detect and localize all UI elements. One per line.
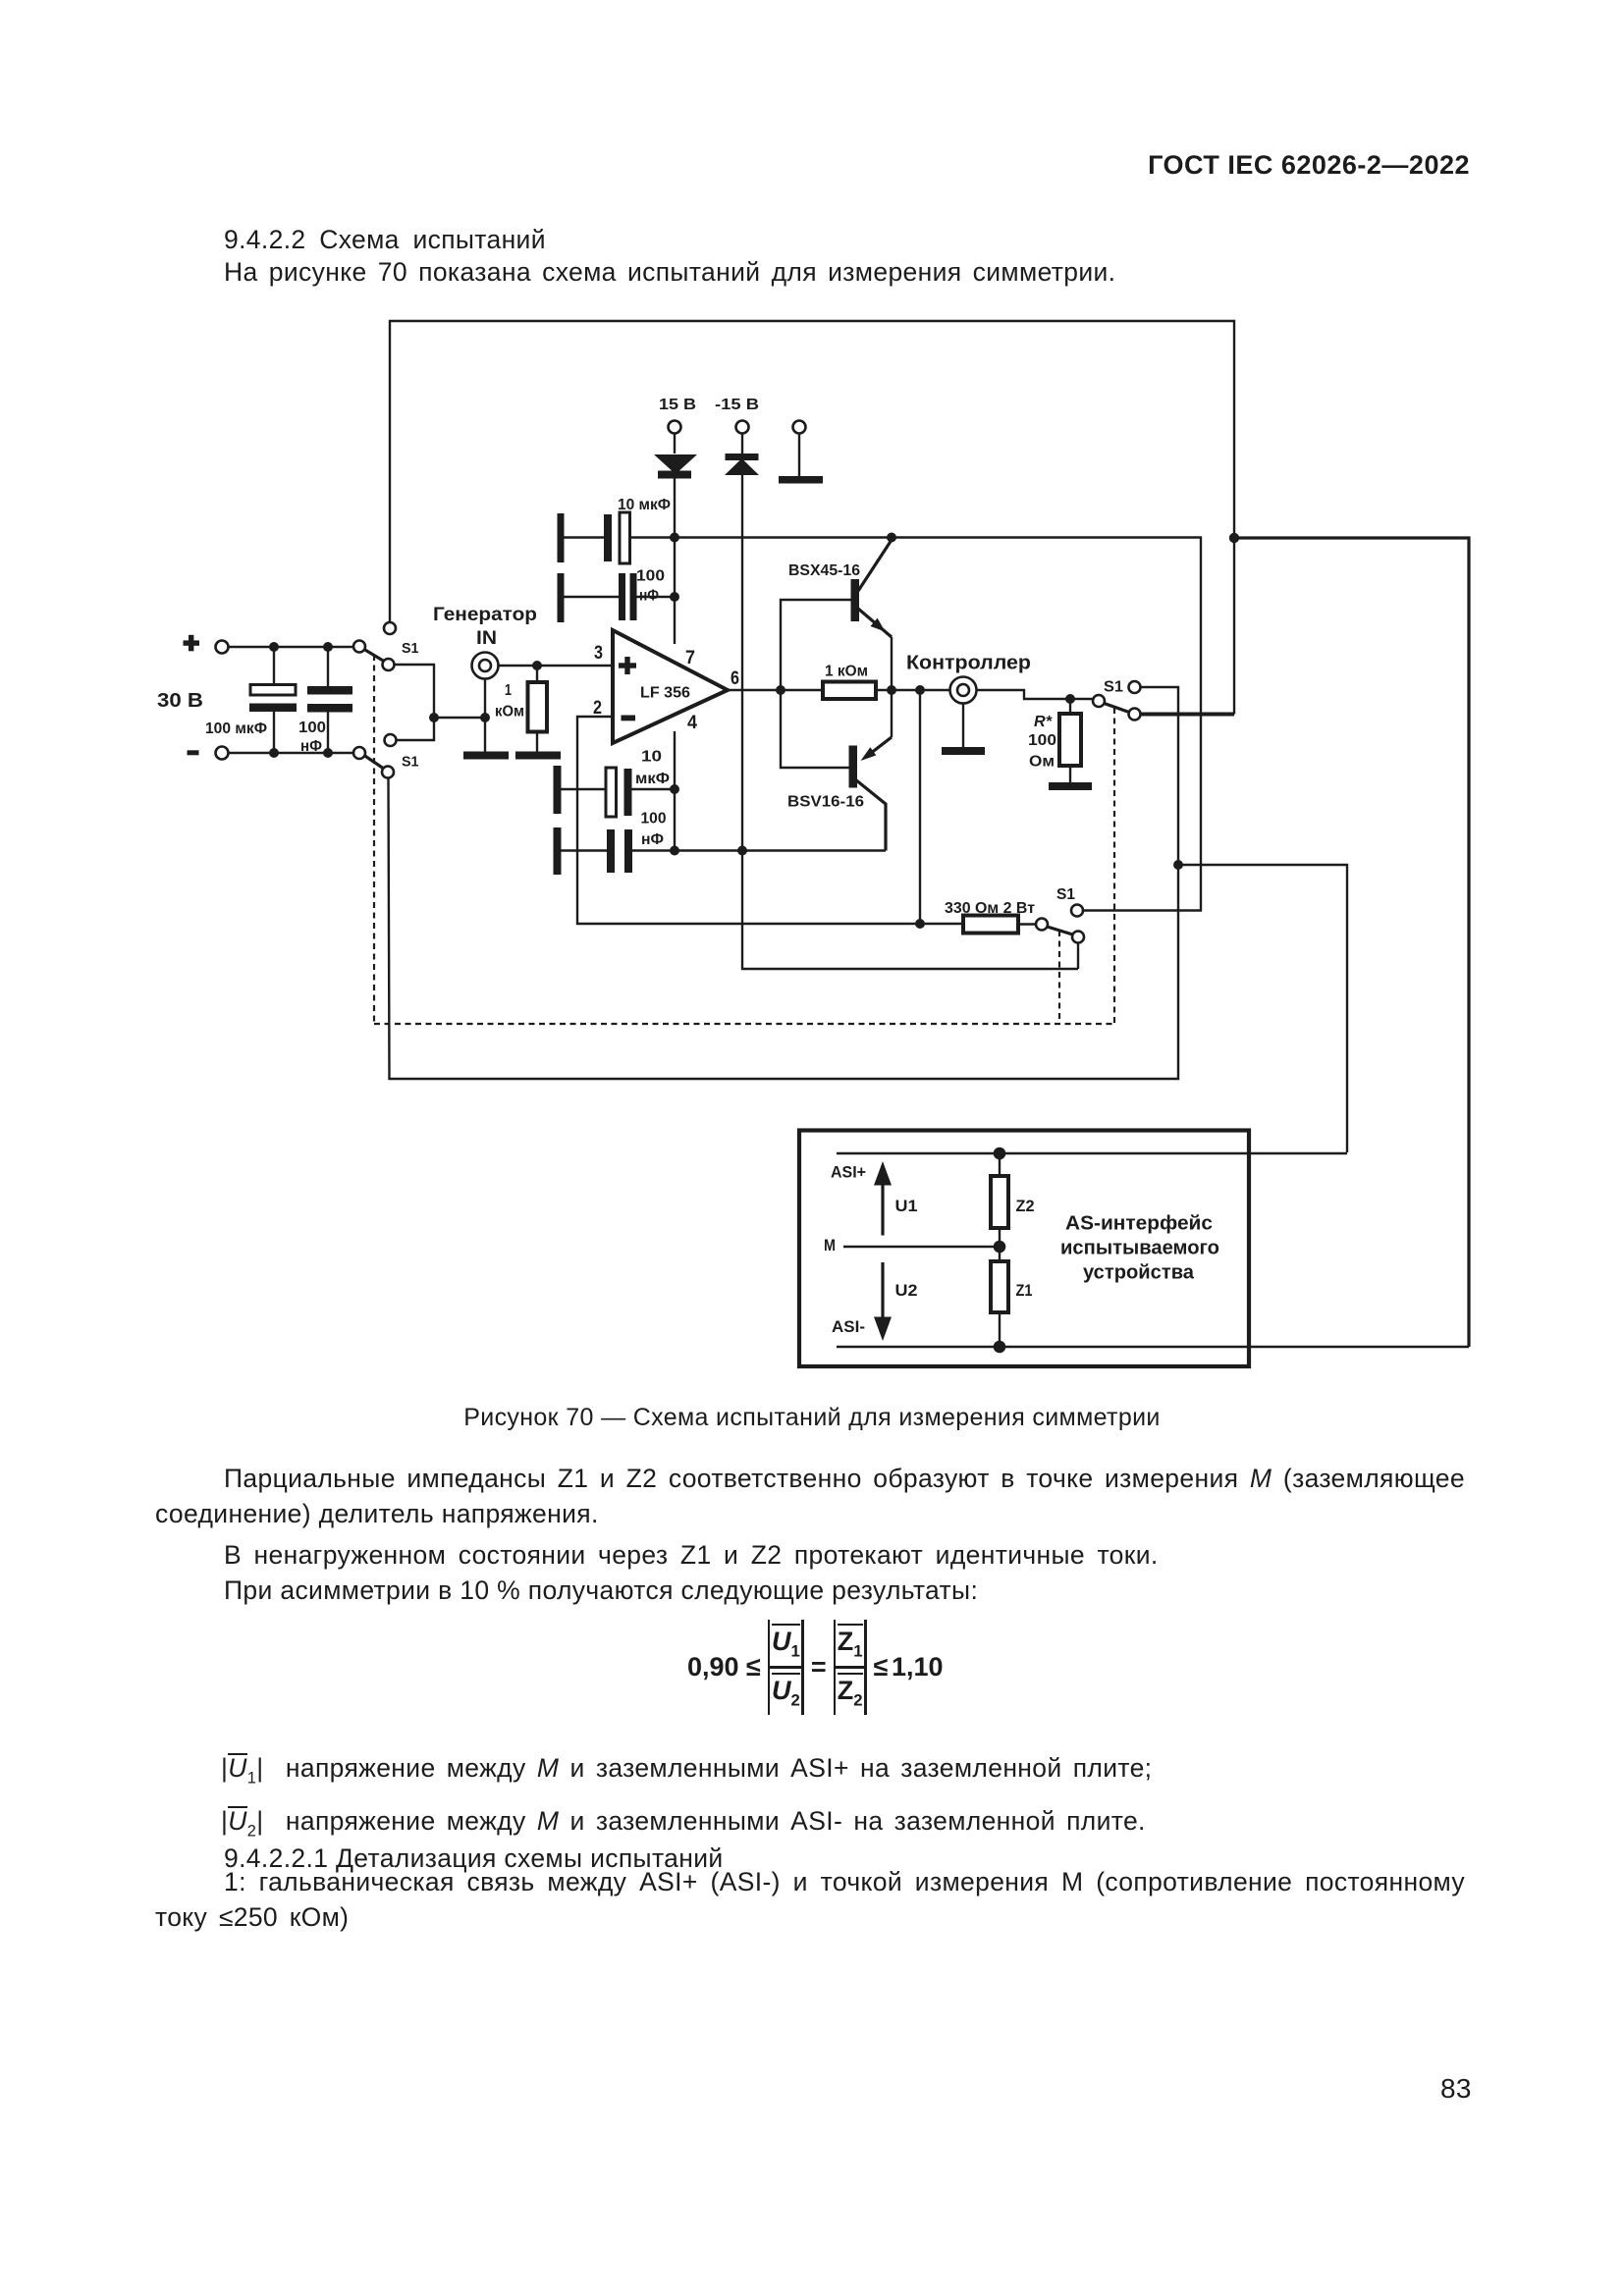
node: M junction	[994, 1241, 1006, 1254]
svg-text:U2: U2	[895, 1281, 918, 1300]
wire: -15 rail vertical down to feedback return	[742, 475, 1078, 969]
svg-text:IN: IN	[476, 628, 497, 649]
diode (-15 V)	[725, 434, 759, 476]
node: R* junction	[1065, 694, 1075, 704]
node: 100 нФ to +15 vertical	[670, 592, 679, 602]
svg-text:AS-интерфейс: AS-интерфейс	[1065, 1213, 1213, 1235]
svg-text:6: 6	[731, 668, 739, 689]
label: - polarity	[188, 750, 199, 755]
svg-text:U1: U1	[895, 1197, 918, 1215]
intro line	[224, 255, 1115, 291]
switch S1 section c (controller pole)	[1093, 681, 1141, 721]
svg-text:Генератор: Генератор	[433, 605, 537, 625]
battery - terminal	[216, 747, 229, 760]
ground (controller)	[942, 747, 985, 755]
wire: - rail	[229, 752, 354, 754]
switch S1 section d (330 Ом)	[1036, 905, 1084, 943]
ground (upper 10 мкФ)	[558, 513, 565, 562]
label: + polarity	[184, 635, 200, 652]
svg-text:S1: S1	[402, 640, 419, 657]
svg-text:100: 100	[641, 811, 667, 828]
svg-text:LF 356: LF 356	[640, 685, 690, 702]
body paragraphs	[155, 1462, 1465, 1608]
page number	[1440, 2071, 1472, 2107]
node: junction at (1200,881)	[1173, 860, 1183, 870]
resistor 330 Ом 2 Вт	[963, 916, 1018, 934]
ground (reference)	[779, 476, 823, 484]
wire: op-amp output	[728, 689, 950, 691]
svg-text:7: 7	[685, 648, 695, 668]
capacitor 100 нФ (source side)	[307, 647, 352, 753]
svg-text:ASI-: ASI-	[832, 1317, 865, 1336]
AS-interface box	[799, 1131, 1249, 1367]
svg-text:100: 100	[1028, 732, 1056, 749]
label: + input	[619, 657, 636, 674]
impedance Z2	[991, 1153, 1008, 1247]
op-amp U1 LF 356	[613, 630, 728, 743]
svg-text:BSX45-16: BSX45-16	[788, 562, 860, 579]
svg-text:M: M	[824, 1236, 836, 1255]
svg-text:S1: S1	[402, 754, 419, 771]
svg-text:30 В: 30 В	[157, 690, 203, 712]
U2 definition	[221, 1804, 1146, 1849]
wire: S1a output to common vertical	[395, 665, 435, 740]
svg-text:нФ: нФ	[300, 738, 322, 755]
svg-text:устройства: устройства	[1083, 1262, 1195, 1284]
svg-text:Ом: Ом	[1029, 754, 1055, 771]
svg-text:100: 100	[298, 720, 326, 736]
node: lower 10 мкФ junction	[670, 784, 679, 794]
wire: IN ground drop	[484, 679, 486, 752]
wire: 330 Ом to switch	[1018, 923, 1036, 925]
wire: S1d blade down to -15 return	[1077, 943, 1079, 970]
impedance Z1	[991, 1247, 1008, 1347]
svg-text:BSV16-16: BSV16-16	[787, 794, 864, 811]
svg-text:100 мкФ: 100 мкФ	[205, 721, 267, 737]
node: feedback tap	[915, 685, 925, 695]
wire: -15 feed line to BSV collector	[632, 849, 886, 851]
controller connector	[950, 677, 977, 704]
capacitor 100 мкФ (polarized)	[249, 647, 297, 753]
arrow U2	[874, 1262, 892, 1341]
arrow U1	[874, 1161, 892, 1236]
wire: heavy rail from node at (1257,548) to far-right vertical	[1234, 538, 1469, 1347]
node: base drive junction	[776, 685, 785, 695]
svg-text:нФ: нФ	[641, 831, 664, 848]
svg-text:100: 100	[636, 568, 665, 585]
svg-text:нФ: нФ	[639, 588, 659, 605]
ground (input resistor)	[515, 752, 561, 760]
node: emitter junction	[887, 685, 896, 695]
figure caption	[0, 1401, 1624, 1436]
svg-text:1 кОм: 1 кОм	[825, 664, 868, 680]
wire: controller to R* / S1	[976, 690, 1094, 699]
node dots on + rail	[269, 642, 279, 652]
svg-text:1: 1	[505, 682, 512, 699]
battery + terminal	[216, 641, 229, 654]
wire: S1c blade to right vertical (heavy)	[1141, 713, 1235, 717]
subsection heading	[224, 1842, 724, 1877]
wire: terminal to ground	[798, 434, 800, 477]
wire: feedback vertical to output	[919, 690, 921, 924]
wire: branch to ASI+ feed	[1178, 865, 1347, 1152]
wire: op-amp pin 4 down	[674, 731, 676, 850]
capacitor 10 мкФ (lower supply decoupling)	[562, 768, 676, 817]
capacitor 10 мкФ (upper supply decoupling)	[565, 512, 630, 563]
wire: M line	[843, 1246, 1000, 1248]
node: junction at 1 кОм top	[532, 661, 542, 670]
svg-text:S1: S1	[1104, 679, 1123, 696]
node: ASI- junction	[994, 1341, 1006, 1354]
svg-text:15 В: 15 В	[659, 397, 696, 413]
label: - input	[622, 716, 636, 721]
wire: IN to op-amp pin 3	[498, 665, 614, 667]
ground (R*)	[1049, 782, 1092, 790]
svg-text:10 мкФ: 10 мкФ	[618, 497, 671, 513]
diode (15 V)	[654, 434, 697, 479]
label: AS-интерфейс испытываемого устройства	[1060, 1213, 1219, 1284]
node: feedback junction	[915, 919, 925, 929]
ground (upper 100 нФ)	[558, 573, 565, 622]
ground (generator)	[463, 752, 509, 760]
transistor Q1 BSX45-16	[781, 540, 892, 690]
resistor 1 кОм (output)	[823, 682, 876, 700]
node dots on +15 rail	[670, 533, 679, 543]
svg-text:ASI+: ASI+	[831, 1163, 866, 1182]
transistor Q2 BSV16-16	[781, 690, 892, 851]
resistor 1 кОм (input)	[528, 666, 548, 752]
switch S1 section b (- pole)	[353, 734, 397, 778]
node: junction dot at (1257,548)	[1229, 533, 1239, 543]
svg-text:Z1: Z1	[1016, 1281, 1033, 1300]
wire: to generator ground	[434, 717, 485, 719]
wire: ASI+ line	[837, 1152, 1347, 1154]
node dots on -15 feed	[670, 846, 679, 856]
resistor R* 100 Ом	[1059, 699, 1081, 782]
circuit schematic SVG	[0, 0, 1624, 1404]
mechanical coupling dashed link	[374, 655, 1114, 1024]
svg-text:испытываемого: испытываемого	[1060, 1238, 1219, 1259]
node: ASI+ junction	[994, 1148, 1006, 1160]
note paragraph	[155, 1865, 1465, 1935]
svg-text:мкФ: мкФ	[635, 771, 670, 787]
svg-text:R*: R*	[1034, 714, 1053, 730]
ground (lower 100 нФ)	[554, 828, 562, 875]
svg-text:S1: S1	[1056, 886, 1075, 903]
switch S1 section a (+ pole)	[353, 622, 396, 670]
wire: +15 horizontal rail	[630, 538, 1202, 911]
capacitor 100 нФ (lower supply decoupling)	[562, 829, 633, 873]
svg-text:Z2: Z2	[1016, 1197, 1035, 1215]
section heading 9.4.2.2	[224, 223, 546, 258]
U1 definition	[221, 1751, 1152, 1796]
wire: outer loop top edge from upper S1 contact up and across to right vertical	[390, 321, 1234, 715]
generator IN connector	[472, 653, 499, 679]
node: junction to IN ground	[429, 713, 439, 722]
wire: +15 rail vertical to op-amp pin 7	[674, 478, 676, 645]
capacitor 100 нФ (upper supply decoupling)	[565, 573, 676, 620]
page header	[1148, 150, 1470, 181]
wire: + rail	[229, 646, 354, 648]
svg-text:кОм: кОм	[495, 704, 524, 721]
svg-text:Контроллер: Контроллер	[906, 653, 1031, 674]
-15 V supply terminal	[736, 421, 749, 434]
reference ground terminal	[793, 421, 806, 434]
svg-text:10: 10	[641, 749, 662, 766]
svg-text:4: 4	[687, 713, 697, 733]
wire: controller ground drop	[962, 703, 964, 748]
15 V supply terminal	[669, 421, 681, 434]
svg-text:-15 В: -15 В	[715, 397, 759, 413]
ground (lower 10 мкФ)	[554, 766, 562, 814]
wire: ASI- line	[837, 1346, 1469, 1348]
svg-text:3: 3	[594, 643, 603, 664]
formula	[687, 1620, 944, 1715]
svg-text:330 Ом 2 Вт: 330 Ом 2 Вт	[945, 900, 1035, 917]
wire: pin 2 feedback loop down and right	[577, 717, 963, 924]
node dots on - rail	[269, 748, 279, 758]
wire: - pole down left side to bottom edge and up right side	[389, 687, 1179, 1079]
